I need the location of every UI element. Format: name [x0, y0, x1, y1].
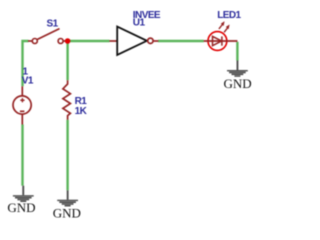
voltage source V1	[13, 86, 31, 124]
svg-text:GND: GND	[53, 206, 81, 221]
svg-text:GND: GND	[224, 76, 252, 91]
node junction	[65, 38, 71, 44]
svg-text:LED1: LED1	[217, 10, 241, 21]
ground under LED	[227, 61, 248, 77]
ground under R1	[57, 190, 78, 206]
ground under V1	[13, 186, 34, 202]
svg-text:S1: S1	[47, 19, 59, 30]
wire from switch corner to V1 top	[23, 41, 29, 86]
wire from V1 bottom to GND	[21, 125, 23, 186]
svg-text:V1: V1	[22, 76, 34, 87]
svg-text:1K: 1K	[75, 106, 88, 117]
LED LED1	[204, 21, 238, 50]
op-amp U1 inverter	[109, 27, 158, 55]
wire from junction to inverter input	[70, 40, 110, 42]
wire from inverter output to LED	[158, 40, 204, 42]
wire from LED corner down to GND	[236, 42, 238, 61]
switch S1	[28, 29, 67, 44]
svg-text:U1: U1	[133, 17, 146, 28]
resistor R1	[63, 80, 71, 120]
wire from junction down to R1	[66, 41, 68, 80]
svg-text:GND: GND	[7, 200, 35, 215]
wire from R1 bottom to GND	[66, 120, 68, 191]
